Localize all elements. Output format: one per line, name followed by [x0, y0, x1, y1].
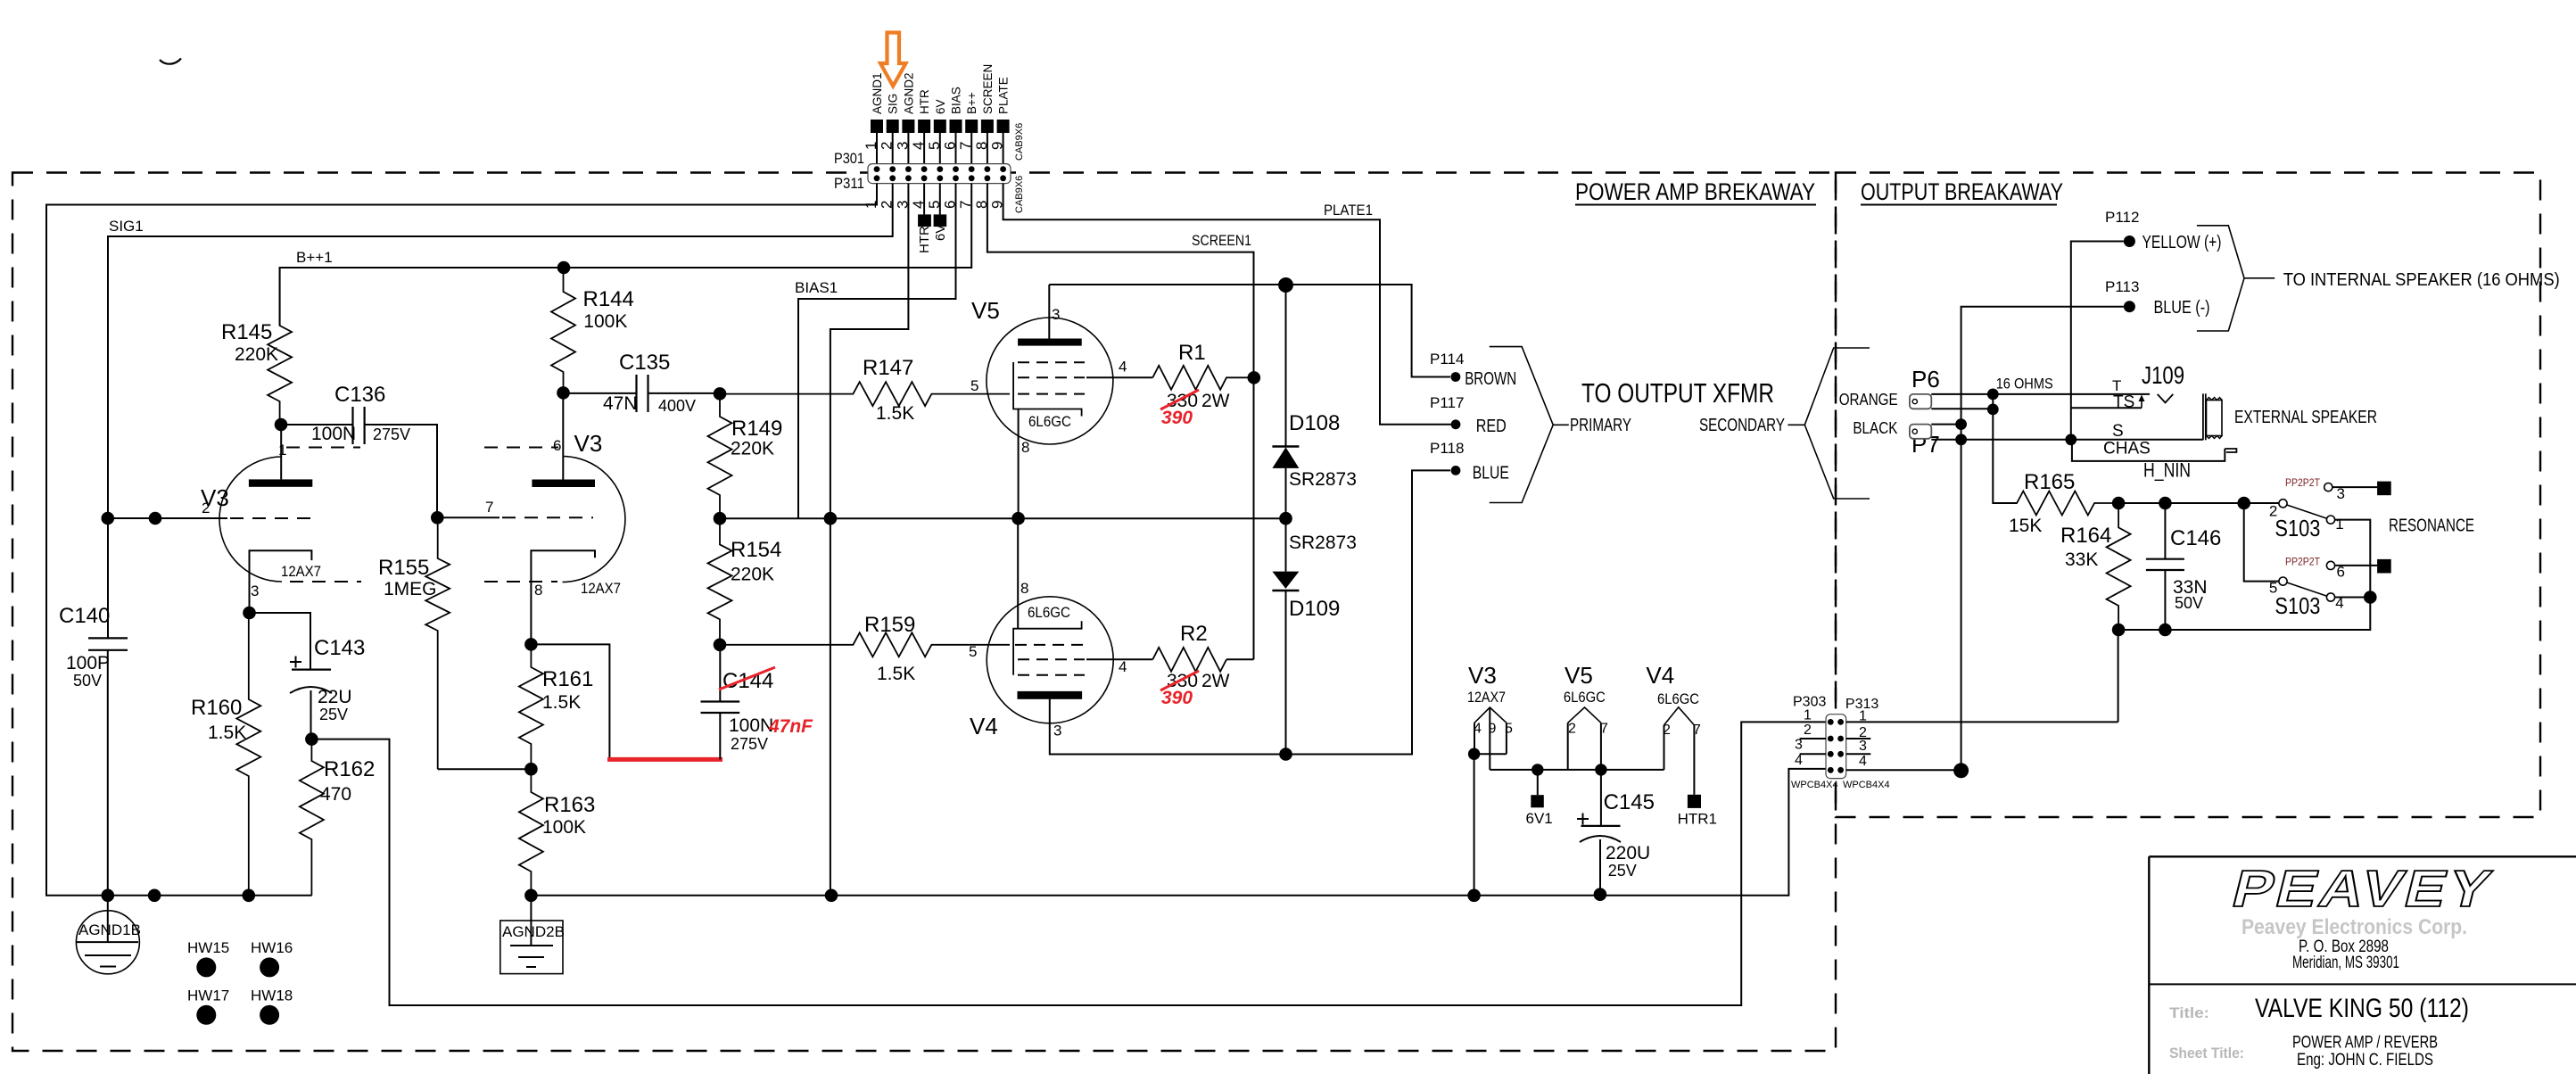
label POWER AMP / REVERB [2292, 1034, 2438, 1053]
junction dot R1/screen column [1248, 371, 1261, 384]
label S103 (lower) [2275, 592, 2320, 619]
wire V5 pin8 cathode down [1018, 409, 1020, 520]
svg-text:C135: C135 [619, 351, 670, 375]
wire switch feed column [2244, 503, 2279, 582]
svg-text:R155: R155 [378, 556, 429, 580]
label P313 [1845, 697, 1878, 712]
svg-text:R2: R2 [1180, 622, 1208, 646]
pad HTR1 (P311 pin4) [917, 214, 932, 253]
label V4 [970, 713, 998, 739]
svg-text:25V: 25V [319, 706, 348, 723]
resistor R149 [708, 393, 783, 518]
svg-text:HTR: HTR [918, 89, 931, 114]
svg-text:8: 8 [1020, 580, 1028, 597]
tube V5 envelope [987, 318, 1113, 444]
capacitor C146 [2146, 503, 2221, 630]
svg-text:Sheet Title:: Sheet Title: [2169, 1045, 2244, 1062]
svg-text:1: 1 [863, 142, 879, 150]
svg-text:T: T [2112, 377, 2121, 394]
svg-text:2: 2 [879, 142, 896, 150]
svg-text:1.5K: 1.5K [876, 403, 914, 424]
svg-text:R164: R164 [2060, 524, 2111, 548]
svg-text:Title:: Title: [2169, 1004, 2209, 1021]
heater tent V4 [1664, 707, 1695, 725]
svg-text:HTR1: HTR1 [917, 219, 932, 253]
pin label 8 (V5 cathode) [1021, 439, 1029, 456]
V3b plate bar [532, 480, 595, 488]
svg-text:8: 8 [973, 142, 990, 150]
svg-text:B++1: B++1 [296, 249, 333, 266]
svg-text:SECONDARY: SECONDARY [1699, 416, 1785, 435]
wire heater bus [1490, 769, 1664, 771]
junction dot rail/R160 [243, 889, 256, 903]
svg-text:1.5K: 1.5K [542, 692, 581, 713]
wire 16 ohms line to jack tip [1931, 393, 2150, 395]
svg-text:SR2873: SR2873 [1289, 533, 1357, 553]
svg-text:4: 4 [1119, 359, 1127, 376]
label 12AX7 (heater) [1467, 689, 1506, 706]
label Peavey Electronics Corp. [2242, 915, 2467, 939]
resistor R163 [519, 769, 595, 896]
svg-text:9: 9 [1489, 721, 1497, 736]
svg-text:V4: V4 [970, 713, 998, 739]
svg-text:4: 4 [910, 142, 927, 150]
svg-text:VALVE KING 50 (112): VALVE KING 50 (112) [2255, 994, 2469, 1023]
svg-text:C146: C146 [2170, 526, 2221, 550]
svg-text:AGND2: AGND2 [902, 72, 915, 114]
svg-text:1: 1 [278, 442, 286, 459]
section title POWER AMP BREKAWAY [1575, 178, 1816, 205]
svg-text:2: 2 [1804, 723, 1812, 738]
svg-text:BLUE (-): BLUE (-) [2154, 298, 2210, 318]
svg-text:S103: S103 [2275, 592, 2320, 619]
label V4 (heater) [1646, 662, 1674, 689]
wire cathode junction to bottom run [311, 722, 1826, 1005]
svg-text:47nF: 47nF [768, 716, 813, 737]
V5 grid dashes [1018, 362, 1085, 393]
svg-text:YELLOW (+): YELLOW (+) [2143, 233, 2222, 252]
PEAVEY logo [2226, 861, 2499, 918]
svg-text:CAB9X6: CAB9X6 [1014, 176, 1025, 213]
svg-text:5: 5 [969, 643, 977, 660]
svg-text:100K: 100K [583, 311, 627, 332]
junction dot H switch feed [2237, 497, 2250, 510]
svg-text:P118: P118 [1430, 440, 1464, 457]
svg-text:1.5K: 1.5K [208, 723, 246, 743]
svg-text:H_NIN: H_NIN [2143, 459, 2191, 481]
wire 6V stub to pad [939, 184, 941, 215]
svg-text:AGND2B: AGND2B [502, 923, 565, 940]
capacitor C135 [564, 351, 721, 415]
pin label 5 (V5 grid) [970, 377, 978, 394]
wire V5 heater pin7 [1600, 723, 1602, 770]
svg-text:4: 4 [1859, 754, 1867, 769]
svg-text:1: 1 [2335, 516, 2343, 533]
wire P113 blue column [1961, 307, 2124, 771]
wire switch-3 to pad [2332, 486, 2377, 488]
junction dot R144/C135 [557, 386, 570, 400]
label 6L6GC (V4) [1028, 604, 1070, 621]
label 12AX7 (V3b) [581, 580, 621, 597]
pin label 4 (V4 screen) [1119, 658, 1127, 675]
tube V3b envelope arc [563, 457, 625, 582]
svg-text:R163: R163 [544, 793, 595, 817]
svg-text:R154: R154 [731, 538, 781, 562]
svg-text:2: 2 [202, 500, 210, 516]
svg-text:SCREEN1: SCREEN1 [1192, 232, 1251, 249]
pin label 6 (S103) [2337, 563, 2345, 580]
diode D109 [1272, 518, 1299, 754]
svg-text:6V: 6V [934, 99, 947, 114]
label BLACK [1853, 419, 1897, 437]
junction dot A on 16-ohm line [1987, 389, 1999, 401]
label P. O. Box 2898 [2299, 938, 2389, 956]
svg-text:7: 7 [957, 142, 974, 150]
svg-text:25V: 25V [1608, 862, 1637, 880]
svg-text:P113: P113 [2105, 278, 2139, 295]
svg-text:R149: R149 [731, 417, 782, 441]
svg-text:V5: V5 [971, 297, 1000, 324]
svg-text:R145: R145 [221, 320, 272, 344]
wire resonance bottom rail [2118, 520, 2370, 630]
svg-text:33K: 33K [2065, 549, 2098, 570]
isolated junction dot on grid row [149, 512, 162, 525]
wire P6 down to R165 [1993, 394, 2017, 503]
wire resonance top row [2118, 502, 2279, 504]
label PP2P2T (upper) [2285, 476, 2321, 489]
terminal P113 [2105, 278, 2210, 318]
svg-text:4: 4 [2335, 595, 2343, 612]
pin label 2 (S103) [2269, 503, 2277, 520]
junction dot G C146 top [2159, 497, 2172, 510]
resistor R144 [551, 268, 634, 392]
svg-text:6L6GC: 6L6GC [1564, 689, 1606, 706]
junction dot D on sleeve line [1955, 434, 1967, 445]
svg-text:P114: P114 [1430, 351, 1464, 368]
svg-text:6: 6 [553, 437, 561, 454]
V3a plate bar [249, 479, 312, 486]
terminal P117 [1430, 394, 1507, 436]
junction dot plate-net/D108 [1278, 277, 1293, 293]
svg-text:TO INTERNAL SPEAKER (16 OHMS): TO INTERNAL SPEAKER (16 OHMS) [2283, 270, 2560, 290]
label SR2873 (D109) [1289, 533, 1357, 553]
wire SIG1: pin2 to left vertical [108, 184, 893, 639]
wire V3a plate pin1 [280, 425, 282, 479]
label SR2873 (D108) [1289, 469, 1357, 490]
label EXTERNAL SPEAKER [2234, 408, 2377, 427]
svg-text:HW17: HW17 [187, 987, 229, 1004]
svg-text:220K: 220K [235, 344, 278, 365]
svg-text:BIAS: BIAS [950, 87, 963, 114]
hardware pad HW15 [187, 939, 229, 977]
capacitor C144 [701, 645, 774, 760]
junction dot C145/rail [1594, 888, 1607, 901]
svg-text:PRIMARY: PRIMARY [1570, 416, 1631, 435]
label PP2P2T (lower) [2285, 555, 2321, 567]
spade connector P7 [1910, 425, 1961, 458]
svg-text:V5: V5 [1565, 662, 1593, 689]
svg-text:4: 4 [1119, 658, 1127, 675]
svg-text:3: 3 [1053, 723, 1061, 739]
pin labels 4 9 5 (V3 heater) [1474, 721, 1513, 736]
junction dot R163/AGND2B [524, 889, 538, 903]
label R1 330 2W with red strike [1160, 390, 1230, 411]
pin label 4 (V5 screen) [1119, 359, 1127, 376]
pad 6V1 [1526, 795, 1553, 827]
svg-text:AGND1: AGND1 [871, 72, 884, 114]
label R2 330 2W with red strike [1160, 671, 1230, 691]
svg-text:CHAS: CHAS [2103, 439, 2151, 458]
diode D108 [1272, 447, 1299, 519]
capacitor C136 [281, 383, 437, 517]
junction dot V4 plate/D109/P118 [1279, 748, 1292, 761]
svg-text:SIG: SIG [887, 94, 900, 114]
wire V4 pin8 cathode up [1017, 518, 1019, 629]
junction dot C P7/blue column [1955, 418, 1967, 430]
junction dot 6V1 tap [1532, 764, 1543, 775]
label Sheet Title: [2169, 1045, 2244, 1062]
junction dot F R165/R164 [2112, 497, 2126, 510]
svg-text:6V: 6V [933, 225, 948, 241]
wire V3 heater pin5 [1506, 723, 1507, 754]
wire heater tie [1474, 753, 1507, 755]
junction dot C136/R155/grid7 [431, 511, 444, 525]
label ORANGE [1839, 391, 1898, 409]
label PLATE1 [1324, 202, 1373, 219]
svg-text:C140: C140 [59, 604, 110, 628]
pin label 1 (S103) [2335, 516, 2343, 533]
red correction jumper wire [607, 757, 722, 762]
resistor R155 [378, 517, 531, 769]
pin label 4 (S103) [2335, 595, 2343, 612]
svg-text:C143: C143 [314, 636, 365, 660]
label 12AX7 (V3a) [281, 563, 321, 580]
switch S103 upper half [2279, 483, 2335, 525]
svg-text:RED: RED [1476, 417, 1507, 436]
wire P313 pin4 to blue column [1846, 769, 1955, 771]
svg-text:WPCB4X4: WPCB4X4 [1843, 780, 1890, 790]
junction dot V3 heater [1468, 748, 1480, 760]
label V5 [971, 297, 1000, 324]
label SIG1 [109, 218, 144, 235]
svg-text:16 OHMS: 16 OHMS [1996, 376, 2053, 392]
label J109 [2142, 361, 2184, 389]
wire grid pin7 row [437, 516, 500, 518]
junction dot V5/V4 cathodes [1011, 512, 1025, 525]
resistor R164 [2060, 503, 2131, 630]
svg-text:R144: R144 [583, 287, 634, 311]
svg-text:P311: P311 [834, 175, 864, 192]
junction dot blue column end [1953, 763, 1969, 778]
label CAB9X6 (P301) [1014, 123, 1025, 161]
wire switch contact 4 to rail [2334, 597, 2370, 599]
label P303 [1793, 695, 1826, 710]
svg-text:1: 1 [1804, 708, 1812, 723]
svg-text:390: 390 [1161, 408, 1193, 428]
red strike through C144 [719, 667, 775, 690]
svg-text:6: 6 [2337, 563, 2345, 580]
wire P313 pin3 stub [1846, 753, 1871, 755]
pin numbers P303 [1795, 708, 1812, 768]
V3a cathode and pin3 [250, 550, 312, 613]
switch S103 lower half [2279, 561, 2335, 601]
resistor R159 [720, 613, 1010, 684]
svg-text:C136: C136 [334, 383, 385, 407]
svg-text:3: 3 [894, 142, 911, 150]
V5 plate bar and pin3 [1018, 285, 1082, 346]
terminal P118 [1430, 440, 1509, 483]
svg-text:Peavey Electronics Corp.: Peavey Electronics Corp. [2242, 915, 2467, 939]
dashes shared envelope top left [286, 447, 360, 449]
label TO OUTPUT XFMR [1581, 377, 1774, 409]
pad 6V (P311 pin5) [933, 214, 948, 241]
svg-text:390: 390 [1161, 688, 1193, 708]
svg-text:PEAVEY: PEAVEY [2226, 861, 2499, 918]
svg-text:S: S [2112, 422, 2124, 441]
heater tent V5 [1568, 707, 1601, 723]
svg-text:12AX7: 12AX7 [1467, 689, 1506, 706]
svg-text:PLATE: PLATE [997, 77, 1011, 114]
wire V3 heater pin4 [1474, 723, 1475, 754]
junction dot C135/R147/R149 [714, 387, 727, 401]
pin label 3 (V4 plate) [1053, 723, 1061, 739]
breakaway bracket SECONDARY [1788, 348, 1870, 499]
pin label 5 (S103) [2269, 580, 2277, 597]
svg-text:100N: 100N [729, 715, 773, 736]
svg-text:8: 8 [1021, 439, 1029, 456]
label 6L6GC (V4 heater) [1657, 690, 1699, 707]
dashed border: OUTPUT board outline [1836, 173, 2540, 818]
dashes shared envelope bottom right [484, 581, 557, 582]
svg-text:TO OUTPUT XFMR: TO OUTPUT XFMR [1581, 377, 1774, 409]
svg-text:P112: P112 [2105, 209, 2139, 226]
wire V4 heater pin7 to HTR1 [1693, 725, 1695, 795]
label Eng: JOHN C. FIELDS [2297, 1051, 2433, 1070]
svg-text:BLUE: BLUE [1473, 464, 1509, 483]
svg-text:BIAS1: BIAS1 [795, 279, 838, 296]
junction dot V5 pin7/C145 [1595, 764, 1606, 775]
svg-text:WPCB4X4: WPCB4X4 [1791, 780, 1838, 790]
svg-text:P117: P117 [1430, 394, 1464, 411]
junction dot V3a cathode [243, 607, 256, 620]
svg-text:15K: 15K [2009, 516, 2042, 536]
junction dot C143/R162 [305, 732, 318, 746]
label SCREEN1 [1192, 232, 1251, 249]
junction dot J C146 bottom [2159, 624, 2172, 637]
long row BIAS/screen junction wire [720, 517, 1286, 519]
junction dot B at P6 barrel [1987, 404, 1999, 416]
svg-text:2W: 2W [1201, 671, 1230, 691]
breakaway bracket internal speaker [2197, 226, 2275, 331]
svg-text:12AX7: 12AX7 [281, 563, 321, 580]
svg-text:P301: P301 [834, 150, 864, 167]
wire B++1: pin7 left to R145 [280, 184, 972, 326]
svg-text:EXTERNAL SPEAKER: EXTERNAL SPEAKER [2234, 408, 2377, 427]
svg-text:220K: 220K [731, 565, 774, 585]
svg-text:R161: R161 [542, 667, 593, 691]
svg-text:HTR1: HTR1 [1678, 811, 1717, 828]
wire HTR stub to pad [923, 184, 925, 215]
svg-text:AGND1B: AGND1B [78, 921, 141, 938]
junction dot diode midpoint [1279, 512, 1292, 525]
wire V4 heater pin2 [1664, 725, 1665, 770]
svg-text:5: 5 [970, 377, 978, 394]
label 6L6GC (V5 heater) [1564, 689, 1606, 706]
pin label 8 (V4 cathode) [1020, 580, 1028, 597]
breakaway bracket PRIMARY [1490, 347, 1569, 503]
svg-text:V3: V3 [1468, 662, 1497, 689]
svg-text:100K: 100K [542, 817, 586, 838]
pin label 3 (V3a cathode) [251, 582, 259, 599]
label H_NIN [2143, 459, 2191, 481]
junction dot R154/R159/C144 [714, 639, 727, 652]
V5 screen exit wire pin4 [1086, 376, 1152, 378]
svg-text:220U: 220U [1606, 843, 1650, 863]
svg-text:100N: 100N [311, 424, 356, 444]
svg-text:POWER AMP / REVERB: POWER AMP / REVERB [2292, 1034, 2438, 1053]
label P301 [834, 150, 864, 167]
label Title: [2169, 1004, 2209, 1021]
pad resonance lower [2377, 559, 2391, 574]
svg-text:220K: 220K [731, 439, 774, 459]
wire V3b plate pin6 [562, 392, 564, 479]
svg-text:6L6GC: 6L6GC [1028, 604, 1070, 621]
wire P313 pin1 long [1846, 721, 2118, 723]
label CHAS [2103, 439, 2151, 458]
tube V4 envelope [987, 597, 1113, 723]
capacitor C140 [59, 604, 128, 896]
svg-text:3: 3 [251, 582, 259, 599]
svg-text:CAB9X6: CAB9X6 [1014, 123, 1025, 161]
orange annotation arrow (points at SIG pin) [880, 33, 906, 87]
pin label 2 (V3a grid) [202, 500, 210, 516]
pin labels 2 7 (V5 heater) [1568, 721, 1608, 736]
pad HTR1 (heater) [1678, 795, 1717, 828]
pin label 6 (V3b plate) [553, 437, 561, 454]
resistor R145 [221, 268, 292, 425]
svg-text:12AX7: 12AX7 [581, 580, 621, 597]
connector P301/P311 pads and signal labels [871, 64, 1011, 164]
svg-text:R162: R162 [324, 757, 375, 781]
dashes shared envelope top right [484, 447, 558, 449]
resistor R1 [1152, 341, 1254, 390]
red correction label 390 (R1) [1161, 408, 1193, 428]
pin label 5 (V4 grid) [969, 643, 977, 660]
svg-text:2: 2 [1568, 721, 1576, 736]
V5 cathode bracket [1013, 362, 1082, 417]
label BIAS1 [795, 279, 838, 296]
svg-text:1.5K: 1.5K [877, 664, 915, 684]
pad resonance upper [2377, 482, 2391, 496]
junction dot heater/rail [1467, 889, 1481, 903]
wire V5 heater pin2 [1567, 723, 1569, 770]
label V3 (first half) [201, 484, 229, 511]
jack TS switch line with arrow [2071, 395, 2145, 409]
svg-text:3: 3 [1859, 739, 1867, 754]
V3b cathode and pin8 [531, 550, 595, 644]
wire CHAS chassis line [2072, 440, 2225, 461]
svg-text:C144: C144 [722, 669, 773, 693]
section title OUTPUT BREAKAWAY [1861, 178, 2063, 205]
connector P301/P311 body with pins [868, 164, 1011, 184]
connector pin numbers rows [863, 142, 1006, 209]
stray mark (tilde) [160, 59, 181, 64]
wire BIAS1: pin6 down-left-down to grid row [798, 184, 956, 519]
svg-text:275V: 275V [731, 735, 768, 753]
svg-text:2W: 2W [1201, 391, 1230, 411]
svg-text:BLACK: BLACK [1853, 419, 1897, 437]
V4 cathode bracket [1013, 621, 1082, 675]
